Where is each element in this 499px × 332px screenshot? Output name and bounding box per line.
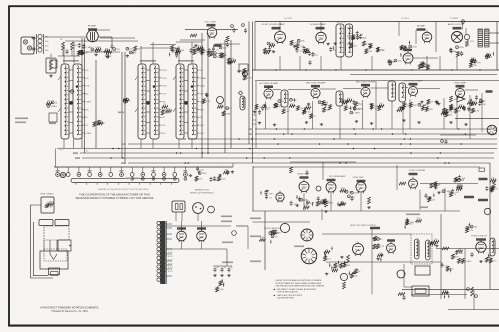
svg-text:5%: 5% [434, 239, 437, 241]
svg-text:1 MEG: 1 MEG [85, 101, 92, 103]
svg-text:RATIO DET: RATIO DET [336, 21, 348, 24]
svg-text:1ST VIDEO AMP: 1ST VIDEO AMP [329, 175, 346, 178]
svg-text:220K: 220K [354, 193, 359, 195]
svg-text:2.2K: 2.2K [217, 56, 222, 58]
svg-text:12K: 12K [116, 49, 120, 51]
svg-text:2.2K: 2.2K [360, 38, 365, 40]
svg-text:270K: 270K [162, 78, 167, 80]
svg-text:1 MEG: 1 MEG [353, 113, 360, 115]
svg-text:HORIZ OUTPUT: HORIZ OUTPUT [471, 236, 487, 238]
svg-text:4.5 MC SOUND IF AMP: 4.5 MC SOUND IF AMP [261, 23, 285, 26]
svg-text:THE COOPERATION OF THE MANUFAC: THE COOPERATION OF THE MANUFACTURER OF T… [79, 192, 150, 196]
svg-text:270K: 270K [162, 86, 167, 88]
svg-text:2.2K: 2.2K [98, 121, 103, 123]
svg-text:220K: 220K [180, 50, 185, 52]
svg-text:470K: 470K [213, 180, 218, 182]
svg-text:5%: 5% [85, 117, 88, 119]
svg-text:2.2K: 2.2K [469, 230, 474, 232]
svg-text:270K: 270K [412, 47, 417, 49]
svg-text:40: 40 [224, 267, 226, 269]
svg-text:CHANNEL NO SHOWN IN DETENT: CHANNEL NO SHOWN IN DETENT POSITION INDI… [98, 188, 149, 191]
svg-text:10K: 10K [223, 48, 227, 50]
svg-text:OSC CONV: OSC CONV [204, 22, 216, 24]
svg-text:SYNC SEP: SYNC SEP [352, 177, 364, 179]
svg-text:1ST VIDEO IF AMP: 1ST VIDEO IF AMP [259, 82, 279, 85]
svg-text:©Howard W. Sams & Co., Inc. 19: ©Howard W. Sams & Co., Inc. 1951 [51, 310, 88, 313]
svg-text:6.3 V: 6.3 V [168, 271, 173, 273]
svg-text:B+ 250V: B+ 250V [284, 18, 292, 20]
svg-text:5%: 5% [380, 103, 383, 105]
svg-text:3.3K: 3.3K [221, 178, 226, 180]
svg-text:DEFLECTION YOKE AND HV UNITS W: DEFLECTION YOKE AND HV UNITS WILL OPERAT… [275, 279, 322, 282]
svg-text:RECEIVER MAKES IT POSSIBLE TO: RECEIVER MAKES IT POSSIBLE TO BRING YOU … [76, 196, 154, 200]
svg-text:220K: 220K [226, 113, 231, 115]
svg-text:220K: 220K [409, 222, 414, 224]
svg-text:40: 40 [217, 267, 219, 269]
svg-text:1 MEG: 1 MEG [86, 47, 93, 49]
svg-text:3.3K: 3.3K [475, 110, 480, 112]
svg-text:1 MEG: 1 MEG [47, 202, 54, 204]
svg-text:6.3 V: 6.3 V [168, 267, 173, 269]
svg-text:3.3K: 3.3K [219, 289, 224, 291]
svg-text:40: 40 [231, 267, 233, 269]
svg-text:SYNC CLIPPER: SYNC CLIPPER [409, 170, 425, 172]
svg-text:470K: 470K [340, 188, 345, 190]
svg-text:2.2K: 2.2K [246, 74, 251, 76]
svg-text:RF AMP: RF AMP [88, 25, 97, 28]
svg-text:INTERLOCK RECEPTACLE: INTERLOCK RECEPTACLE [190, 192, 215, 195]
svg-text:1 MEG: 1 MEG [50, 106, 57, 108]
svg-text:470K: 470K [355, 37, 360, 39]
svg-text:FINE TUNING: FINE TUNING [40, 194, 54, 196]
svg-text:WITHOUT MASK BUT KEEP A SAFE: WITHOUT MASK BUT KEEP A SAFE DISTANCE AN… [275, 282, 322, 285]
svg-text:TYPE OF APPLICATION: TYPE OF APPLICATION [277, 290, 299, 293]
svg-text:3.3K: 3.3K [260, 237, 265, 239]
svg-text:SOUND IF AMP: SOUND IF AMP [310, 23, 326, 26]
svg-text:2.2K: 2.2K [448, 112, 453, 114]
svg-text:VOLTMETER FIRST: VOLTMETER FIRST [277, 297, 295, 299]
svg-text:1 MEG: 1 MEG [294, 43, 301, 45]
svg-text:2.2K: 2.2K [162, 94, 167, 96]
svg-text:220K: 220K [459, 47, 464, 49]
svg-text:6.3 V: 6.3 V [168, 263, 173, 265]
svg-text:220K: 220K [200, 86, 205, 88]
svg-text:USE PRECAUTIONS WHEN SERVICING: USE PRECAUTIONS WHEN SERVICING THIS CHAS… [275, 285, 325, 288]
svg-text:AF AMP: AF AMP [417, 25, 426, 28]
svg-text:270K: 270K [85, 86, 90, 88]
svg-text:12K: 12K [349, 192, 353, 194]
svg-text:3RD VIDEO IF AMP: 3RD VIDEO IF AMP [356, 81, 376, 84]
svg-text:5%: 5% [200, 117, 203, 119]
svg-text:470K: 470K [247, 78, 252, 80]
svg-text:220K: 220K [202, 173, 207, 175]
svg-text:2.2K: 2.2K [380, 246, 385, 248]
svg-text:3.3K: 3.3K [310, 202, 315, 204]
svg-text:470K: 470K [333, 268, 338, 270]
svg-text:TO SPKR: TO SPKR [450, 18, 459, 20]
svg-text:BARRIER PLUG: BARRIER PLUG [195, 189, 210, 192]
svg-text:270K: 270K [162, 70, 167, 72]
svg-text:5%: 5% [473, 104, 476, 106]
svg-text:VIDEO AMP: VIDEO AMP [454, 82, 467, 85]
svg-text:1 MEG: 1 MEG [200, 78, 207, 80]
svg-text:2.2K: 2.2K [417, 218, 422, 220]
svg-text:3.3K: 3.3K [459, 253, 464, 255]
svg-text:A PHOTOFACT STANDARD NOTATION: A PHOTOFACT STANDARD NOTATION SCHEMATIC [40, 307, 99, 310]
svg-text:3.3K: 3.3K [294, 204, 299, 206]
svg-text:TO PIN 1: TO PIN 1 [401, 18, 409, 20]
svg-text:2ND VIDEO IF AMP: 2ND VIDEO IF AMP [306, 82, 326, 85]
svg-text:470K: 470K [198, 46, 203, 48]
svg-text:4TH VIDEO IF AMP: 4TH VIDEO IF AMP [403, 80, 423, 83]
svg-text:1 MEG: 1 MEG [85, 133, 92, 135]
svg-text:6.3 V: 6.3 V [168, 252, 173, 254]
svg-text:12K: 12K [301, 41, 305, 43]
svg-text:470K: 470K [264, 50, 269, 52]
svg-text:270K: 270K [268, 193, 273, 195]
svg-text:1 MEG: 1 MEG [465, 261, 472, 263]
svg-text:SOUND TAKEOFF: SOUND TAKEOFF [264, 227, 282, 230]
svg-text:3.3K: 3.3K [206, 101, 211, 103]
svg-text:47K: 47K [94, 49, 98, 51]
svg-text:3.3K: 3.3K [397, 61, 402, 63]
svg-text:6.3 V: 6.3 V [168, 260, 173, 262]
svg-text:6.3 V: 6.3 V [168, 256, 173, 258]
